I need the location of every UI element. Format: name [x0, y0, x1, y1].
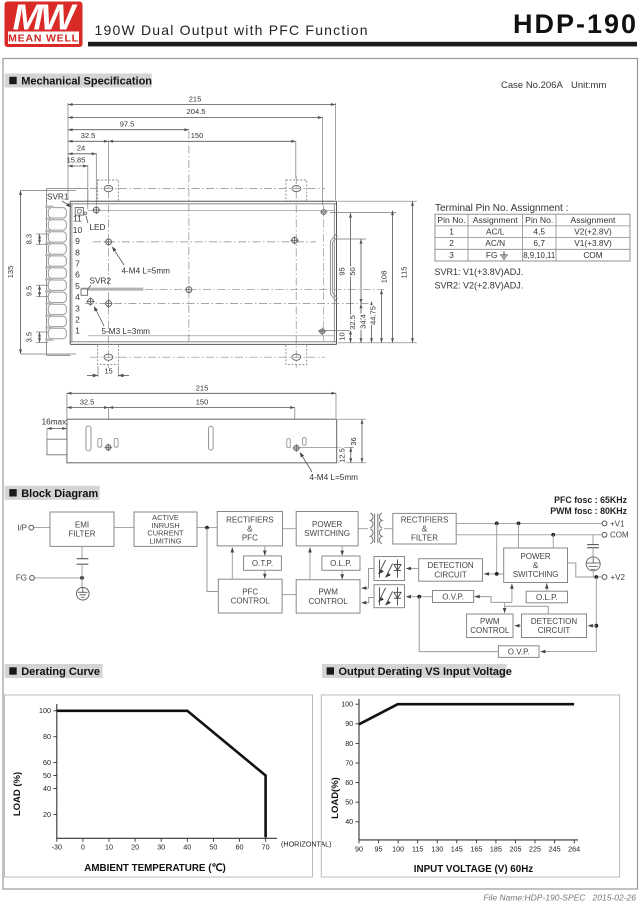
svg-text:4-M4 L=5mm: 4-M4 L=5mm: [310, 473, 359, 482]
svg-text:-30: -30: [52, 843, 62, 852]
side view slot middle: [209, 426, 214, 450]
right side dim 10: [350, 330, 352, 343]
svg-text:SVR2: SVR2: [90, 277, 112, 286]
svg-text:SVR1: SVR1: [47, 193, 69, 202]
SVR1 pointer: [62, 201, 71, 207]
PFC control block: [218, 579, 282, 613]
svg-text:130: 130: [431, 845, 443, 854]
svg-text:15: 15: [104, 367, 112, 376]
top view dim 215: [67, 103, 69, 200]
svg-text:95: 95: [338, 267, 347, 275]
svg-text:Output Derating VS Input Volta: Output Derating VS Input Voltage: [339, 666, 512, 678]
terminal pin table: [435, 214, 630, 261]
terminal +V1: [602, 521, 607, 526]
terminal I/P: [29, 525, 34, 530]
FG earth symbol in table: [500, 252, 508, 260]
svg-text:215: 215: [196, 384, 209, 393]
wire cap to FG node: [81, 564, 83, 578]
wire branch to detection bottom: [505, 606, 549, 614]
top mounting tab right hole: [292, 186, 301, 192]
right side dim 95: [350, 213, 352, 330]
right side dim 108: [392, 211, 394, 343]
top mounting tab left dashed: [98, 180, 119, 201]
svg-text:115: 115: [412, 845, 423, 854]
left dim 9.5: [36, 284, 48, 286]
OTP block: [244, 556, 282, 570]
svg-text:20: 20: [131, 843, 139, 852]
centerline through tab holes: [90, 188, 325, 190]
input voltage chart frame: [321, 695, 619, 877]
svg-text:8: 8: [75, 247, 80, 257]
svg-text:COM: COM: [610, 531, 629, 540]
svg-text:40: 40: [345, 817, 353, 826]
right side dim 50: [337, 238, 366, 240]
derating curve line: [57, 711, 266, 838]
wire V1 output: [456, 522, 602, 524]
screw lower-left: [105, 300, 113, 308]
terminal COM: [602, 532, 607, 537]
right side dim 115: [338, 200, 417, 202]
svg-text:2: 2: [449, 238, 454, 248]
wire EMI to inrush: [114, 527, 134, 529]
input voltage chart axes: [359, 699, 578, 840]
svg-text:1: 1: [449, 227, 454, 237]
svg-text:40: 40: [43, 784, 51, 793]
top view dim 15.85: [87, 165, 89, 209]
svg-text:12.5: 12.5: [338, 448, 347, 463]
junction feedback detection bottom: [594, 624, 598, 628]
svg-text:60: 60: [345, 778, 353, 787]
center screw: [185, 286, 193, 294]
side view dim 32.5: [67, 407, 109, 409]
wire PWM control up to power switching: [309, 548, 311, 580]
vertical centerline left column: [108, 176, 110, 368]
section header Derating Curve: [5, 664, 103, 678]
rectifiers and PFC block: [217, 512, 282, 546]
active inrush current limiting block: [134, 512, 197, 546]
wire up into power and switching bottom: [511, 584, 513, 602]
input voltage curve line: [359, 704, 574, 724]
junction input node: [205, 526, 209, 530]
svg-text:LOAD(%): LOAD(%): [330, 777, 341, 819]
wire COM output: [456, 534, 602, 536]
svg-text:90: 90: [345, 719, 353, 728]
SVR2 trimmer: [81, 289, 88, 295]
svg-text:I/P: I/P: [17, 523, 27, 532]
side view slot left: [86, 426, 91, 451]
input voltage chart x ticks and labels: [355, 840, 580, 854]
svg-text:O.V.P.: O.V.P.: [508, 647, 530, 656]
top view dim 204.5: [322, 117, 324, 205]
wire V1 down into power and switching: [518, 523, 520, 548]
wire FG to ground node: [34, 577, 82, 579]
wire I/P to EMI: [34, 527, 50, 529]
svg-text:LOAD (%): LOAD (%): [12, 772, 23, 816]
svg-text:+V2: +V2: [611, 573, 626, 582]
side view case outline: [67, 419, 337, 463]
OVP bottom block: [498, 646, 539, 658]
svg-text:225: 225: [529, 845, 541, 854]
svg-text:Case No.206A: Case No.206A: [501, 80, 563, 91]
svg-text:70: 70: [345, 758, 353, 767]
svg-text:HDP-190: HDP-190: [513, 9, 638, 39]
svg-text:9.5: 9.5: [25, 286, 34, 296]
power switching block: [296, 512, 358, 546]
svg-text:150: 150: [191, 131, 204, 140]
svg-text:Pin No.: Pin No.: [525, 215, 553, 225]
svg-text:SVR1: V1(+3.8V)ADJ.: SVR1: V1(+3.8V)ADJ.: [435, 267, 524, 277]
wire rectifiers down to OTP: [264, 546, 266, 555]
SVR1 trimmer: [75, 208, 83, 216]
centerline through center screw: [145, 289, 384, 291]
right side dim 44.75: [381, 290, 383, 343]
svg-text:0: 0: [81, 843, 85, 852]
svg-text:204.5: 204.5: [187, 107, 206, 116]
svg-text:15.85: 15.85: [67, 156, 86, 165]
bottom tab right hole: [292, 354, 301, 360]
svg-text:Terminal Pin No. Assignment :: Terminal Pin No. Assignment :: [435, 203, 568, 214]
svg-text:Mechanical Specification: Mechanical Specification: [21, 76, 152, 88]
svg-text:Derating Curve: Derating Curve: [21, 666, 100, 678]
top view dim 32.5: [68, 140, 109, 142]
terminal FG: [30, 576, 35, 581]
svg-text:50: 50: [43, 771, 51, 780]
side view dim 215: [66, 393, 68, 419]
svg-text:Block Diagram: Block Diagram: [21, 488, 98, 500]
power and switching block: [504, 548, 568, 583]
bottom mounting tab right dashed: [286, 345, 307, 365]
right side dim 34.4: [371, 302, 373, 343]
screw bottom-right: [319, 328, 327, 336]
svg-text:40: 40: [183, 843, 191, 852]
wire transformer to rectifiers filter: [384, 528, 393, 530]
side view small slots left pair: [98, 438, 102, 447]
rectifiers and filter block: [393, 513, 456, 544]
svg-text:1: 1: [75, 326, 80, 336]
svg-text:185: 185: [490, 845, 502, 854]
svg-text:LED: LED: [90, 223, 106, 232]
side view dim 150: [109, 407, 295, 409]
wire PFC control up to rectifiers: [231, 548, 233, 580]
wire V2 feedback down: [595, 577, 597, 652]
svg-text:60: 60: [236, 843, 244, 852]
svg-text:Pin No.: Pin No.: [437, 215, 465, 225]
earth ground symbol: [77, 587, 90, 600]
right side dim 32.5 vertical: [360, 304, 362, 343]
svg-text:50: 50: [348, 267, 357, 275]
svg-text:4: 4: [75, 292, 80, 302]
svg-text:(HORIZONTAL): (HORIZONTAL): [281, 840, 332, 849]
bottom tab dim 15: [97, 366, 99, 377]
svg-text:108: 108: [380, 271, 389, 284]
svg-text:100: 100: [341, 700, 353, 709]
svg-text:2: 2: [75, 315, 80, 325]
svg-text:30: 30: [157, 843, 165, 852]
optocoupler upper: [374, 557, 405, 581]
junction FG node: [80, 576, 84, 580]
centerline 5-M3 row: [85, 303, 374, 305]
svg-text:FG: FG: [16, 574, 27, 583]
wire OVP middle right network: [474, 597, 512, 603]
derating chart y ticks: [53, 711, 57, 815]
wire optocoupler upper to PWM control: [362, 569, 374, 589]
wire inrush to rectifiers: [197, 527, 217, 529]
wire power switching down to OLP: [341, 546, 343, 555]
transformer T1: [370, 513, 382, 544]
left dim 8.3: [36, 233, 48, 235]
svg-text:AC/L: AC/L: [486, 227, 505, 237]
svg-text:Assignment: Assignment: [473, 215, 519, 225]
svg-text:9: 9: [75, 236, 80, 246]
svg-text:5: 5: [75, 281, 80, 291]
section header Block Diagram: [5, 486, 100, 500]
svg-text:190W Dual Output with PFC Func: 190W Dual Output with PFC Function: [95, 22, 369, 38]
screw 4-M4 left: [105, 238, 113, 246]
svg-text:32.5: 32.5: [348, 315, 357, 330]
earth symbol output: [586, 557, 600, 571]
output capacitor to COM: [592, 535, 594, 545]
svg-text:7: 7: [75, 259, 80, 269]
svg-text:V1(+3.8V): V1(+3.8V): [574, 238, 612, 248]
left dim 135: [21, 189, 76, 191]
svg-text:90: 90: [355, 845, 363, 854]
svg-text:115: 115: [400, 267, 409, 279]
wire detection bottom to PWM bottom: [515, 625, 522, 627]
side view screw left: [104, 444, 112, 452]
svg-text:4,5: 4,5: [533, 227, 545, 237]
svg-text:10: 10: [73, 225, 83, 235]
wire node to detection upper: [484, 573, 497, 575]
right screws centerline: [322, 205, 324, 341]
junction detection node: [495, 572, 499, 576]
junction V1 feedback: [495, 522, 499, 526]
svg-text:O.L.P.: O.L.P.: [536, 593, 558, 602]
centerline 4-M4 screws: [93, 241, 316, 243]
svg-text:264: 264: [568, 845, 580, 854]
svg-text:8.3: 8.3: [25, 234, 34, 244]
detection circuit upper block: [419, 559, 483, 582]
svg-text:205: 205: [509, 845, 521, 854]
wire rectifiers to power switching: [283, 528, 297, 530]
svg-text:O.V.P.: O.V.P.: [442, 592, 464, 601]
junction COM to power sw: [551, 533, 555, 537]
terminal pin numbers: [73, 214, 83, 336]
svg-text:80: 80: [345, 739, 353, 748]
svg-text:150: 150: [196, 398, 209, 407]
svg-text:100: 100: [39, 706, 51, 715]
svg-text:20: 20: [43, 810, 51, 819]
EMI filter block: [50, 512, 114, 546]
screw 4-M4 right: [290, 236, 298, 244]
side view small slots right pair: [287, 439, 291, 448]
PWM control bottom block: [467, 614, 513, 638]
svg-text:6,7: 6,7: [533, 238, 545, 248]
top view dim 97.5: [68, 129, 189, 131]
svg-text:File Name:HDP-190-SPEC 2015-: File Name:HDP-190-SPEC 2015-02-26: [483, 893, 636, 903]
wire COM down into power and switching: [552, 535, 554, 548]
terminal +V2: [602, 575, 607, 580]
svg-text:INPUT VOLTAGE (V) 60Hz: INPUT VOLTAGE (V) 60Hz: [414, 864, 533, 875]
top view dim 24: [95, 153, 97, 205]
wire OLP down to PWM control: [341, 570, 343, 578]
svg-text:34.4: 34.4: [359, 314, 368, 329]
wire node to power and switching left: [497, 573, 504, 575]
screw top-right: [320, 208, 328, 216]
svg-text:60: 60: [43, 758, 51, 767]
cover inner edge top: [88, 209, 334, 211]
wire optocoupler lower to PWM control: [362, 598, 374, 603]
section header Mechanical Specification: [5, 74, 152, 88]
svg-text:5-M3 L=3mm: 5-M3 L=3mm: [102, 327, 151, 336]
svg-text:3.5: 3.5: [25, 332, 34, 342]
wire FG node down to earth: [81, 578, 83, 588]
side view screw right: [293, 444, 301, 452]
junction V2 feedback: [594, 575, 598, 579]
vertical centerline center: [188, 131, 190, 344]
top mounting tab left hole: [104, 186, 113, 192]
svg-text:80: 80: [43, 732, 51, 741]
wire PFC control to PWM control: [282, 594, 296, 596]
terminal block housing: [47, 189, 88, 356]
screw row centerline y210 ext: [330, 212, 396, 214]
Y-capacitor: [77, 559, 89, 565]
svg-text:3: 3: [449, 250, 454, 260]
wire power switching to transformer: [358, 528, 368, 530]
svg-text:32.5: 32.5: [81, 131, 96, 140]
wire detection to optocoupler upper: [407, 568, 419, 570]
svg-text:3: 3: [75, 303, 80, 313]
terminal pins: [45, 207, 53, 340]
bottom tab left hole: [104, 354, 113, 360]
wire down into PWM control bottom: [504, 602, 506, 612]
left dim 3.5: [36, 331, 48, 333]
svg-text:44.75: 44.75: [369, 306, 378, 325]
svg-text:165: 165: [470, 845, 482, 854]
screw 5-M3: [86, 297, 94, 305]
wire power and switching to V2: [568, 563, 603, 577]
wire V1 down to detection node: [496, 523, 498, 574]
svg-text:FG: FG: [486, 250, 498, 260]
svg-text:50: 50: [345, 798, 353, 807]
svg-text:32.5: 32.5: [80, 398, 95, 407]
vertical centerline right column: [295, 176, 297, 368]
input voltage chart y ticks and labels: [341, 700, 359, 827]
svg-text:95: 95: [375, 845, 383, 854]
svg-text:50: 50: [209, 843, 217, 852]
side dim 12.5: [300, 446, 354, 448]
svg-text:215: 215: [189, 95, 202, 104]
terminal block teeth: [48, 208, 66, 339]
top view dim 150: [109, 140, 296, 142]
svg-text:COM: COM: [583, 250, 602, 260]
OLP block left: [322, 556, 360, 570]
wire feedback to OVP bottom: [541, 651, 597, 653]
top mounting tab right dashed: [286, 180, 307, 201]
svg-text:36: 36: [349, 437, 358, 445]
svg-text:4-M4 L=5mm: 4-M4 L=5mm: [122, 267, 171, 276]
svg-text:O.T.P.: O.T.P.: [252, 559, 273, 568]
LED indicator: [84, 212, 87, 215]
right flange bent tab: [330, 234, 337, 302]
detection circuit bottom block: [522, 614, 587, 638]
junction V1 to power sw: [517, 522, 521, 526]
svg-text:135: 135: [6, 266, 15, 279]
svg-text:V2(+2.8V): V2(+2.8V): [574, 227, 612, 237]
bottom mounting tab left dashed: [98, 345, 119, 365]
optocoupler lower: [374, 585, 405, 608]
OLP block right: [526, 591, 567, 603]
side dim 36: [338, 418, 366, 420]
svg-text:100: 100: [392, 845, 404, 854]
screw top-left: [92, 206, 100, 214]
wire EMI bottom to Y-cap: [81, 546, 83, 558]
PWM control block: [296, 580, 360, 613]
svg-text:145: 145: [451, 845, 463, 854]
section header Output Derating VS Input Voltage: [322, 664, 507, 678]
svg-text:PWM fosc : 80KHz: PWM fosc : 80KHz: [550, 506, 627, 516]
wire OVP bottom to opto branch: [419, 597, 498, 652]
svg-text:16max.: 16max.: [42, 418, 69, 427]
svg-text:AC/N: AC/N: [485, 238, 505, 248]
svg-text:PFC fosc : 65KHz: PFC fosc : 65KHz: [554, 495, 627, 505]
svg-text:24: 24: [77, 144, 85, 153]
svg-text:MW: MW: [13, 0, 79, 38]
OVP block middle: [433, 591, 474, 603]
cover inner edge bottom: [88, 335, 334, 337]
wire feedback to detection bottom: [588, 625, 596, 627]
svg-text:70: 70: [262, 843, 270, 852]
SVR2 heatsink bar: [81, 288, 143, 291]
svg-text:AMBIENT TEMPERATURE (℃): AMBIENT TEMPERATURE (℃): [84, 863, 225, 874]
svg-text:10: 10: [105, 843, 113, 852]
svg-text:O.L.P.: O.L.P.: [330, 559, 352, 568]
svg-text:10: 10: [338, 332, 347, 340]
svg-text:+V1: +V1: [610, 519, 625, 528]
derating chart y labels: [39, 706, 51, 819]
centerline bottom tab holes: [90, 356, 325, 358]
svg-text:6: 6: [75, 270, 80, 280]
wire OTP down to PFC control: [264, 570, 266, 578]
svg-text:SVR2: V2(+2.8V)ADJ.: SVR2: V2(+2.8V)ADJ.: [435, 281, 524, 291]
derating chart x ticks and labels: [52, 838, 270, 851]
wire OVP middle to optocoupler lower: [407, 596, 433, 598]
svg-text:ACTIVEINRUSHCURRENTLIMITING: ACTIVEINRUSHCURRENTLIMITING: [147, 513, 184, 546]
junction OVP feedback branch: [417, 595, 421, 599]
svg-text:Assignment: Assignment: [571, 215, 617, 225]
wire power and switching down to OLP right: [546, 583, 548, 592]
derating chart axes: [57, 704, 277, 838]
svg-text:97.5: 97.5: [120, 120, 135, 129]
case outline top view: [70, 201, 336, 344]
svg-text:245: 245: [549, 845, 561, 854]
header rule: [88, 42, 637, 47]
svg-text:8,9,10,11: 8,9,10,11: [523, 251, 555, 260]
svg-text:Unit:mm: Unit:mm: [571, 80, 606, 91]
derating curve chart frame: [5, 695, 313, 877]
wire junction down to PFC control: [207, 528, 218, 592]
Mean Well logo: [5, 0, 83, 47]
side view left protrusion: [47, 439, 67, 455]
